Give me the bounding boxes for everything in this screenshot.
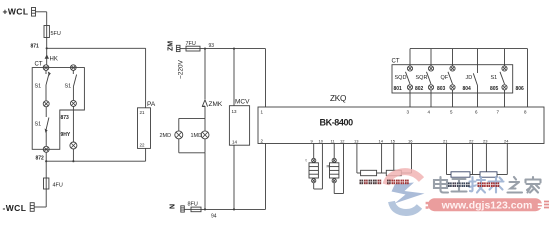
svg-text:802: 802 (415, 86, 424, 92)
wire pin 21 down (447, 144, 452, 175)
controller BK-8400 box (258, 107, 544, 144)
wire (45, 107, 47, 117)
wire bus drop SQR (430, 49, 432, 66)
lamp 9HY (70, 142, 77, 149)
label sensor C (448, 182, 470, 187)
terminal on HK box top left (43, 65, 49, 71)
wire 871 bus down to PA (145, 48, 147, 108)
terminal +WCL (32, 8, 36, 17)
wire SQR to pin 4 (430, 90, 432, 107)
svg-text:873: 873 (61, 115, 70, 121)
wire node 871 down to HK (46, 48, 48, 65)
svg-text:www.dgjs123.com: www.dgjs123.com (441, 200, 533, 212)
switch S1 (500, 66, 507, 90)
svg-text:16: 16 (408, 139, 413, 144)
switch JD (473, 73, 477, 85)
svg-text:21: 21 (140, 110, 146, 115)
wire 806 bus (410, 48, 528, 50)
wire pin 15 to R2 top (393, 144, 395, 171)
svg-text:BK-8400: BK-8400 (320, 118, 354, 128)
watermark url band (426, 198, 549, 211)
wire sensor loop (314, 144, 323, 190)
lamp loop wires (179, 118, 205, 152)
label sensor A (360, 180, 382, 185)
svg-text:8FU: 8FU (188, 202, 198, 208)
wire 873 (72, 106, 74, 142)
svg-text:5FU: 5FU (51, 31, 61, 37)
wire bus drop S1 (504, 49, 506, 66)
svg-text:13: 13 (354, 139, 359, 144)
wire PA to 872 bus (145, 148, 147, 161)
svg-text:10: 10 (319, 139, 324, 144)
terminal right branch (70, 100, 76, 106)
svg-text:872: 872 (36, 156, 45, 162)
wire ZM to 7FU (180, 48, 186, 50)
wire R3 to R4 (470, 174, 480, 176)
switch SQR (427, 66, 434, 90)
fuse 4FU (44, 178, 49, 189)
wire pin 14 tap (381, 144, 383, 174)
node lamp tap N (204, 208, 206, 210)
fuse 7FU (186, 46, 200, 51)
svg-text:+WCL: +WCL (3, 7, 29, 17)
svg-text:12: 12 (340, 139, 345, 144)
wire SQD to pin 3 (409, 90, 411, 107)
wire 4FU to -WCL (34, 189, 46, 207)
wire R4 to pin 24 (497, 144, 507, 175)
svg-text:1MD: 1MD (191, 133, 203, 139)
wire MCV drop (233, 49, 235, 106)
switch S1 right branch (73, 70, 76, 87)
resistor R1 (361, 170, 377, 175)
svg-text:801: 801 (394, 86, 403, 92)
svg-text:15: 15 (391, 139, 396, 144)
svg-text:4FU: 4FU (53, 183, 63, 189)
resistor R4 (480, 172, 497, 177)
wire pin 23 to R4 top (485, 144, 487, 172)
svg-text:9HY: 9HY (61, 132, 71, 138)
wire ZMK drop (204, 49, 206, 99)
svg-text:HK: HK (50, 57, 58, 63)
svg-text:MCV: MCV (235, 99, 250, 106)
label sensor B (387, 180, 409, 185)
svg-text:ZMK: ZMK (209, 101, 223, 108)
svg-text:21: 21 (443, 139, 448, 144)
svg-text:13: 13 (232, 109, 238, 114)
svg-text:14: 14 (232, 140, 238, 145)
svg-text:22: 22 (469, 139, 474, 144)
node MCV tap N (233, 208, 235, 210)
wire pin down (313, 144, 315, 159)
terminal ZM (176, 45, 180, 51)
svg-text:ZKQ: ZKQ (330, 94, 346, 103)
svg-text:S1: S1 (35, 84, 42, 90)
junction 9HY (72, 160, 74, 162)
wire bus drop JD (477, 49, 479, 73)
sensor RT1 (309, 158, 318, 183)
svg-text:SQR: SQR (416, 75, 428, 81)
wire S1 to pin 7 (504, 90, 506, 107)
resistor R2 (386, 170, 401, 175)
wire R1 to R2 (377, 172, 387, 174)
node 871 (46, 47, 48, 49)
connector mid left branch (43, 101, 49, 107)
terminal N (181, 206, 185, 212)
svg-text:CT: CT (392, 59, 400, 65)
switch S1 upper left branch (46, 70, 51, 85)
switch SQD (406, 66, 413, 90)
wire 9HY to 872 bus (72, 149, 74, 161)
terminal on HK box bottom (43, 146, 49, 152)
wire 872 bus (46, 160, 145, 162)
switch S1 lower left branch (45, 118, 49, 133)
svg-text:23: 23 (483, 139, 488, 144)
svg-text:PA: PA (147, 101, 156, 108)
svg-text:R: R (327, 164, 330, 169)
switch box HK outline (32, 68, 84, 150)
svg-text:2MD: 2MD (160, 133, 172, 139)
wire (45, 131, 47, 146)
svg-text:805: 805 (490, 86, 499, 92)
wire to mid lamp (45, 85, 47, 101)
wire pin down (333, 144, 335, 159)
wire pin 13 down (357, 144, 361, 174)
terminal on HK box top right (71, 65, 77, 71)
wire N bus (201, 208, 266, 210)
svg-text:S1: S1 (35, 122, 42, 128)
lamp 1MD (201, 131, 209, 139)
fuse 5FU (44, 26, 49, 38)
svg-text:QF: QF (441, 75, 449, 81)
switch marker ZMK (202, 100, 207, 107)
watermark text dian gong ji shu zhi jia (434, 177, 541, 193)
node ZMK tap (204, 48, 206, 50)
wire pin1 drop (265, 49, 267, 107)
watermark logo swirl (386, 172, 425, 213)
wire MCV to N bus (233, 145, 235, 209)
svg-text:22: 22 (140, 143, 146, 148)
wire (72, 87, 74, 100)
wire 872 down to 4FU (45, 161, 47, 178)
wire lamps to N bus (204, 153, 206, 210)
label sensor D (478, 182, 500, 187)
wire QF to pin 5 (452, 90, 454, 107)
wire 5FU to node 871 (46, 38, 48, 49)
wire left branch to node 872 (45, 152, 47, 161)
wire node 871 to PA riser (47, 47, 146, 49)
meter PA (138, 108, 151, 149)
svg-text:806: 806 (516, 86, 525, 92)
svg-text:SQD: SQD (395, 75, 407, 81)
wire bus drop QF (452, 49, 454, 66)
resistor R3 (451, 172, 470, 177)
svg-text:24: 24 (504, 139, 509, 144)
terminal -WCL (30, 203, 34, 212)
svg-text:S1: S1 (491, 75, 498, 81)
wire +WCL to 5FU (36, 12, 47, 26)
svg-text:93: 93 (209, 43, 215, 49)
svg-text:94: 94 (211, 214, 217, 220)
switch box CT (392, 65, 513, 93)
lamp 2MD (175, 131, 183, 139)
fuse 8FU (191, 207, 201, 212)
svg-text:~220V: ~220V (178, 59, 185, 79)
svg-text:S1: S1 (65, 84, 72, 90)
node 872 (45, 160, 47, 162)
wire bus drop SQD (409, 49, 411, 66)
wire pin 22 tap (472, 144, 474, 175)
switch QF (448, 66, 455, 90)
node MCV tap (233, 48, 235, 50)
wire 806 to pin 8 (527, 49, 529, 107)
wire N bus up to pin 2 (265, 144, 267, 210)
svg-text:804: 804 (463, 86, 472, 92)
svg-text:-WCL: -WCL (3, 203, 27, 213)
svg-text:871: 871 (31, 44, 40, 50)
svg-text:JD: JD (466, 75, 473, 81)
svg-text:7FU: 7FU (186, 41, 196, 47)
wire JD to pin 6 (477, 86, 479, 108)
svg-text:14: 14 (379, 139, 384, 144)
wire R2 to pin 16 (401, 144, 411, 174)
svg-text:ZM: ZM (168, 41, 175, 51)
sensor RT2 (330, 158, 339, 183)
svg-text:N: N (170, 204, 177, 209)
connector marker HK (45, 54, 49, 58)
wire ZMK to lamp loop (204, 106, 206, 118)
wire N to 8FU (184, 208, 191, 210)
wire sensor loop (334, 144, 343, 194)
svg-text:803: 803 (437, 86, 446, 92)
relay MCV (229, 106, 249, 146)
svg-text:CT: CT (35, 62, 43, 68)
wire 7FU to pin1 corner (200, 48, 266, 50)
